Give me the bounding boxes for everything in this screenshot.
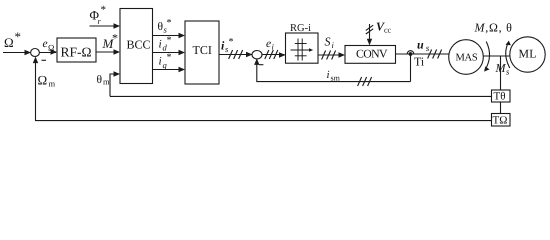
svg-text:Ti: Ti xyxy=(414,55,425,69)
svg-text:cc: cc xyxy=(384,26,392,35)
svg-text:*: * xyxy=(112,31,118,45)
svg-text:θ: θ xyxy=(97,74,103,86)
svg-text:RG-i: RG-i xyxy=(290,23,311,34)
svg-text:Ω: Ω xyxy=(38,73,48,88)
svg-text:r: r xyxy=(98,16,102,26)
svg-text:MAS: MAS xyxy=(456,53,478,64)
svg-text:TΩ: TΩ xyxy=(493,115,508,127)
svg-text:i: i xyxy=(159,56,162,68)
svg-text:m: m xyxy=(103,77,110,87)
svg-text:*: * xyxy=(167,18,172,29)
svg-text:BCC: BCC xyxy=(127,38,151,52)
svg-text:i: i xyxy=(159,39,162,51)
svg-text:e: e xyxy=(43,38,48,50)
svg-text:*: * xyxy=(101,4,107,16)
svg-text:TCI: TCI xyxy=(193,43,212,57)
svg-text:M: M xyxy=(495,61,507,75)
svg-text:CONV: CONV xyxy=(356,47,388,61)
svg-text:Tθ: Tθ xyxy=(494,91,506,103)
svg-text:m: m xyxy=(49,79,56,89)
svg-text:sm: sm xyxy=(331,74,341,83)
svg-text:e: e xyxy=(266,38,271,50)
svg-text:*: * xyxy=(167,35,172,46)
svg-text:S: S xyxy=(325,35,331,49)
svg-text:i: i xyxy=(272,42,275,52)
svg-text:i: i xyxy=(332,40,335,50)
svg-text:ML: ML xyxy=(519,46,537,60)
svg-text:u: u xyxy=(417,38,424,52)
svg-text:RF-Ω: RF-Ω xyxy=(61,45,92,60)
svg-text:*: * xyxy=(229,37,234,48)
svg-text:Ω: Ω xyxy=(48,43,54,53)
svg-text:i: i xyxy=(327,69,330,81)
svg-text:s: s xyxy=(426,43,430,53)
svg-text:Ω: Ω xyxy=(4,35,14,50)
svg-text:*: * xyxy=(15,29,22,44)
svg-text:*: * xyxy=(167,52,172,63)
svg-text:M,Ω, θ: M,Ω, θ xyxy=(474,21,513,35)
